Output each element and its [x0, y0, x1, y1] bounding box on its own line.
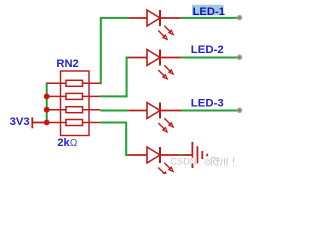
resistor RN2 element 4	[47, 120, 100, 126]
LED D4	[129, 147, 180, 176]
watermark glyph a-kanji	[212, 157, 220, 166]
LED D3	[128, 103, 181, 132]
wire net4 vertical dropper	[125, 122, 127, 156]
wire LED1 output	[181, 17, 240, 19]
resistor RN2 element 3	[47, 107, 100, 113]
svg-text:@: @	[204, 158, 212, 167]
resistor network RN2 box	[61, 71, 90, 136]
wire LED3 output	[181, 110, 240, 112]
wire 3V3 bus vertical	[46, 82, 48, 123]
wire net1 horizontal to LED1	[100, 17, 129, 19]
node endpoint LED3	[236, 107, 243, 114]
wire LED2 output	[181, 57, 240, 59]
label LED-1 highlight	[192, 5, 224, 16]
power port 3V3	[32, 117, 47, 128]
LED D2	[129, 50, 181, 79]
wire net4 stub to LED4	[125, 154, 128, 156]
wire net3 horizontal to LED3	[100, 110, 128, 112]
junction dot B	[44, 107, 50, 113]
ground bar1 bottom repaint	[191, 164, 193, 168]
svg-text:3V3: 3V3	[10, 116, 30, 128]
svg-text:LED-1: LED-1	[193, 6, 225, 18]
junction dot C	[44, 120, 50, 126]
ground symbol	[183, 142, 207, 168]
wire LED4 to ground	[180, 154, 183, 156]
resistor RN2 element 2	[47, 93, 100, 99]
watermark CJK halo	[212, 157, 234, 166]
svg-text:2k: 2k	[57, 137, 70, 149]
junction dot A	[44, 94, 50, 100]
resistor RN2 element 1	[47, 80, 100, 86]
wire net4 horizontal from RN2	[100, 122, 126, 124]
node endpoint LED1	[236, 14, 243, 21]
watermark exclamation	[233, 157, 235, 166]
svg-text:LED-3: LED-3	[191, 98, 224, 110]
LED D1	[129, 10, 181, 39]
node endpoint LED2	[236, 54, 243, 61]
svg-text:RN2: RN2	[56, 58, 78, 70]
svg-text:Ω: Ω	[70, 138, 78, 149]
watermark glyph kawa-kanji	[220, 157, 227, 166]
wire net2 horizontal from RN2	[100, 95, 126, 97]
wire net2 stub to LED2	[126, 57, 130, 59]
wire net1 vertical riser	[100, 18, 102, 84]
wire net2 vertical riser	[126, 58, 128, 98]
svg-text:LED-2: LED-2	[191, 44, 224, 56]
